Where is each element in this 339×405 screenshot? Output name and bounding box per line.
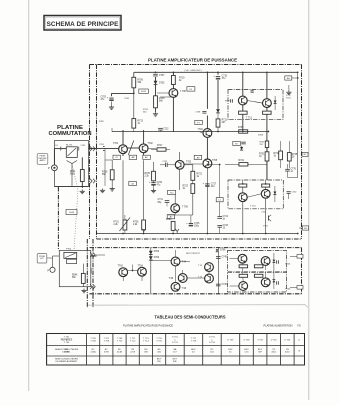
svg-text:R726: R726: [133, 222, 139, 224]
transistor T704: [198, 129, 212, 138]
wire N1 lead: [299, 227, 303, 229]
wire R731 top lead: [266, 140, 268, 152]
wire D706 bottom: [274, 195, 276, 203]
wire C741 right lead: [167, 164, 175, 166]
capacitor C710: [213, 75, 227, 80]
power amp board inner left border: [96, 65, 98, 240]
svg-text:D 706: D 706: [244, 339, 251, 341]
capacitor C718: [217, 225, 228, 230]
node junction: [297, 71, 299, 73]
wire diode rail: [150, 248, 152, 294]
wire T694 out: [180, 261, 190, 263]
emitter resistor R737: [239, 111, 248, 114]
test point F2 box: [233, 141, 241, 145]
node junction: [143, 233, 145, 235]
node junction: [122, 233, 124, 235]
transistor T716 bare: [268, 215, 271, 221]
test point F1 box: [187, 87, 195, 91]
capacitor C747: [277, 260, 279, 263]
board ref 2548 box: [66, 210, 77, 215]
ground R709: [153, 112, 158, 116]
svg-text:2219: 2219: [130, 352, 136, 354]
wire R724 down: [172, 230, 174, 233]
diode D709: [273, 260, 276, 263]
capacitor C717: [251, 91, 254, 92]
table subhead alimentation: [264, 324, 293, 327]
resistor R746: [72, 273, 85, 283]
wire top supply bus: [134, 71, 298, 73]
svg-text:C713: C713: [223, 216, 229, 218]
svg-text:T 712: T 712: [130, 341, 136, 343]
svg-text:81F: 81F: [258, 352, 262, 354]
node junction: [242, 131, 244, 133]
svg-text:R717: R717: [157, 145, 163, 147]
svg-text:C746: C746: [222, 284, 228, 286]
resistor R725: [145, 171, 156, 181]
capacitor C741: [165, 163, 167, 167]
table row header remplacement: [55, 358, 79, 363]
transistor T702: [139, 143, 153, 153]
wire R732 top lead: [280, 141, 282, 151]
transistor T703: [175, 160, 192, 169]
test point A9 box: [194, 155, 202, 159]
node junction: [268, 131, 270, 133]
label C708: [196, 112, 202, 114]
wire D709 D710 link: [273, 263, 275, 280]
resistor R732: [274, 151, 283, 160]
base resistor R739: [239, 184, 247, 187]
wire T702 emitter: [143, 153, 145, 156]
node junction: [173, 71, 175, 73]
wire R732 down: [280, 160, 282, 168]
driver pair box T714 T715: [228, 180, 283, 209]
svg-text:T 716: T 716: [156, 341, 162, 343]
wire C709 down: [153, 185, 155, 188]
label T706 strip: [285, 289, 291, 291]
relay pin tick left: [60, 147, 62, 151]
wire A3 lead: [292, 77, 298, 79]
ground top right: [286, 90, 291, 94]
transistor T707b: [239, 282, 248, 291]
svg-text:2548: 2548: [69, 212, 75, 214]
wire to right tab 2: [290, 286, 297, 288]
svg-text:100u: 100u: [194, 226, 200, 228]
strip left tab 1: [90, 253, 95, 258]
wire R719 to C709: [153, 181, 155, 183]
svg-text:H.P.: H.P.: [40, 258, 44, 260]
junction mark bus mid: [176, 229, 179, 234]
resistor R741: [70, 170, 84, 182]
wire D705 top lead: [274, 96, 276, 101]
capacitor C720: [287, 192, 291, 194]
table row header origine: [55, 349, 79, 354]
svg-text:R716: R716: [102, 172, 108, 174]
wire cap rail: [217, 248, 219, 294]
wire C710 top lead: [217, 72, 219, 75]
resistor R734: [239, 160, 248, 166]
table row header service: [61, 339, 73, 342]
wire T705b to R747: [242, 263, 244, 265]
wire C714 top: [190, 215, 192, 223]
ground commutation: [100, 189, 105, 193]
wire T694 to T696: [175, 266, 177, 282]
emitter resistor R738: [263, 111, 272, 114]
strip right tab 2: [297, 286, 303, 290]
svg-text:4001: 4001: [285, 352, 291, 354]
svg-text:T 708: T 708: [180, 91, 186, 93]
wire to T708b: [265, 272, 267, 278]
transistor T696: [171, 282, 187, 291]
capacitor C716: [231, 99, 233, 102]
wire T708 base: [157, 92, 169, 94]
driver pair box T711 T712: [228, 90, 283, 120]
transistor T706b: [261, 257, 270, 266]
label R730: [260, 142, 266, 146]
svg-text:T704: T704: [198, 129, 204, 131]
label 3-5: [55, 145, 58, 147]
power amp board right border: [301, 65, 303, 240]
diode D706: [216, 249, 226, 252]
resistor R710: [172, 76, 186, 85]
wire into driver box: [225, 100, 230, 102]
label P701: [48, 167, 50, 170]
wire T704b emitter: [141, 276, 143, 281]
test point C8 box: [129, 181, 137, 185]
wire T703 collector: [179, 152, 181, 160]
wire R746 to bottom: [82, 283, 84, 286]
svg-text:C718: C718: [223, 225, 229, 227]
wire relay arm down: [71, 163, 73, 187]
wire T711 to R737: [242, 105, 244, 111]
wire emitter row: [168, 214, 193, 216]
title box SCHEMA DE PRINCIPE: [44, 16, 121, 31]
wire R717 right lead: [166, 149, 170, 151]
capacitor C745: [216, 257, 228, 259]
svg-text:T 710: T 710: [250, 206, 256, 208]
wire R713 bottom lead: [133, 128, 135, 132]
wire R709 bottom: [155, 108, 157, 112]
wire C776 down: [287, 171, 289, 177]
wire C707 to D702: [155, 77, 157, 81]
svg-text:R732: R732: [274, 153, 280, 155]
connector B2 tab: [302, 152, 308, 156]
wire D703a to R711: [217, 113, 219, 119]
wire C703 top: [111, 93, 113, 96]
wire row stub: [111, 128, 113, 132]
diode D704: [149, 256, 160, 260]
label T716: [263, 226, 269, 228]
test point 07 box: [113, 155, 121, 159]
label C741 mid: [163, 161, 169, 163]
relay RL702: [64, 252, 77, 258]
svg-text:SCHEMA DE PRINCIPE: SCHEMA DE PRINCIPE: [47, 21, 120, 28]
transistor T708: [169, 89, 186, 98]
svg-text:C703: C703: [101, 97, 107, 99]
svg-text:2769: 2769: [104, 352, 110, 354]
capacitor C709: [149, 181, 163, 187]
svg-text:T703: T703: [118, 266, 124, 268]
transistor T709: [171, 204, 189, 213]
svg-text:C721: C721: [262, 212, 268, 214]
wire T702 branch down: [143, 160, 145, 219]
transistor T694: [171, 257, 187, 266]
base resistor R740: [262, 184, 270, 187]
svg-text:REPERES: REPERES: [61, 339, 73, 342]
wire T694 up: [175, 250, 177, 257]
wire T703 emitter down: [179, 169, 181, 190]
wire R735 down: [288, 161, 290, 168]
wire R740 to T715: [265, 187, 267, 189]
wire right vertical rail: [297, 72, 299, 177]
wire D702 to R709: [155, 85, 157, 96]
wire T704 base stub: [199, 132, 203, 133]
resistor R730b: [265, 141, 268, 148]
wire T712 to R738: [266, 108, 268, 111]
wire D710 bottom: [273, 283, 275, 290]
prise entree ampli label box: [37, 154, 48, 165]
resistor R749: [239, 274, 248, 277]
node junction: [266, 71, 268, 73]
label C721: [262, 212, 268, 214]
wire box left to T705b: [230, 258, 239, 260]
wire T697 T698 link: [208, 272, 210, 274]
relay contact arm: [67, 161, 78, 164]
wire T714 T715 link: [247, 194, 261, 197]
svg-text:R722: R722: [197, 174, 203, 176]
relay box K1 outline: [55, 141, 89, 187]
wire T695 to T698: [187, 277, 204, 279]
svg-text:R709: R709: [159, 98, 165, 100]
node junction: [133, 93, 135, 95]
svg-text:R711: R711: [222, 120, 228, 122]
wire center column upper: [206, 72, 208, 109]
power amp board bottom border: [97, 238, 302, 240]
wire C776 top: [287, 164, 289, 169]
transistor T695: [169, 274, 188, 283]
wire C705 branch down: [104, 149, 106, 160]
wire T705 emitter rail: [206, 168, 208, 234]
wire P701 down: [124, 230, 126, 234]
diode D706: [273, 192, 276, 195]
wire R731 down: [266, 161, 268, 180]
wire T703b emitter: [122, 277, 124, 281]
wire C707 top lead: [155, 71, 157, 74]
relay RL701: [66, 145, 77, 158]
svg-text:C741: C741: [81, 145, 86, 147]
wire R719 top lead: [153, 162, 155, 171]
wire R706 to R713: [133, 93, 135, 118]
table subhead fo: [298, 325, 301, 327]
wire C713 rail: [219, 165, 221, 217]
label P704: [66, 248, 72, 250]
wire R734 right lead: [248, 163, 267, 165]
wire C776 to rail: [288, 177, 298, 179]
transistor T705: [203, 159, 218, 168]
wire bus left corner down: [133, 72, 135, 77]
svg-text:R735: R735: [292, 154, 298, 156]
wire R710 to T708: [172, 85, 174, 89]
svg-text:C745: C745: [222, 257, 228, 259]
svg-text:PLATINE AMPLIFICATEUR DE PUISS: PLATINE AMPLIFICATEUR DE PUISSANCE: [123, 324, 173, 327]
svg-text:T705: T705: [212, 160, 218, 162]
wire coil to R746: [82, 264, 84, 274]
test point AC box: [143, 155, 151, 159]
node base link: [132, 270, 134, 272]
ground R716: [110, 187, 115, 191]
wire box top to R739: [242, 180, 244, 184]
wire rail to T694: [151, 260, 172, 262]
power transistor T715: [261, 189, 270, 198]
svg-text:C707: C707: [159, 75, 165, 77]
svg-text:T701: T701: [113, 143, 119, 145]
commutation enclosure left border: [57, 187, 59, 250]
wire to R716: [105, 159, 112, 161]
wire R706 bottom lead: [133, 88, 135, 94]
svg-text:T 704: T 704: [64, 342, 70, 344]
capacitor C703: [101, 96, 114, 101]
svg-text:R725: R725: [145, 173, 151, 175]
wire T703 to R722: [184, 164, 193, 166]
semiconductor table outer frame: [47, 334, 305, 366]
node junction: [265, 183, 267, 185]
node junction: [297, 233, 299, 235]
semiconductor table grid: [47, 334, 305, 366]
svg-text:TABLEAU DES SEMI-CONDUCTEURS: TABLEAU DES SEMI-CONDUCTEURS: [155, 314, 226, 319]
wire T708 base: [160, 96, 173, 98]
wire R722 to R723: [192, 180, 194, 183]
diode D710: [273, 280, 276, 283]
transistor T697: [205, 263, 214, 272]
svg-text:D 754: D 754: [209, 342, 216, 344]
label R714: [143, 109, 149, 113]
resistor R716: [102, 170, 114, 180]
svg-text:D 712: D 712: [172, 342, 179, 344]
wire C712 lead: [160, 130, 162, 132]
svg-text:R734: R734: [239, 160, 245, 162]
wire C718 down lead: [219, 227, 221, 233]
svg-text:81F: 81F: [157, 361, 161, 363]
wire to T704 collector: [206, 116, 208, 129]
svg-text:T703: T703: [186, 162, 192, 164]
wire K2 to strip: [91, 255, 97, 257]
resistor R706: [132, 77, 144, 88]
page right edge: [308, 0, 310, 400]
svg-text:P704: P704: [66, 248, 72, 250]
svg-text:[ SEL GRAVURE ]: [ SEL GRAVURE ]: [184, 69, 202, 72]
svg-text:T 96: T 96: [182, 288, 187, 290]
svg-text:C712: C712: [163, 129, 169, 131]
wire D706 top: [274, 186, 276, 192]
wire P702 to relay box: [53, 255, 60, 257]
wire C703 bottom: [111, 102, 113, 106]
diode D703: [149, 251, 160, 255]
wire T701 branch down: [122, 160, 124, 219]
resistor R733: [238, 127, 248, 133]
capacitor C776: [285, 169, 296, 174]
svg-text:84F: 84F: [173, 361, 177, 363]
svg-text:PLATINE AMPLIFICATEUR DE PU: PLATINE AMPLIFICATEUR DE PUISSANCE: [148, 58, 237, 63]
svg-text:414A: 414A: [91, 351, 97, 354]
wire T712 emitter down rail: [266, 114, 268, 180]
node junction: [242, 71, 244, 73]
resistor R735: [287, 153, 298, 161]
ground C709: [151, 189, 156, 193]
wire down to ground row: [104, 160, 106, 186]
page left edge: [28, 0, 30, 391]
wire R739 to T714: [242, 187, 244, 192]
node junction: [217, 71, 219, 73]
wire T702 collector up: [143, 130, 145, 144]
svg-text:T716: T716: [263, 226, 269, 228]
wire T695 up: [182, 270, 184, 273]
svg-text:T712: T712: [286, 98, 292, 100]
lower left border outer: [86, 239, 88, 308]
wire R737 down: [242, 114, 244, 131]
capacitor C715: [186, 222, 200, 228]
svg-text:C710: C710: [222, 76, 228, 78]
wire T703b T704b link: [128, 270, 138, 272]
ground C703: [109, 105, 114, 109]
ground R741: [80, 190, 85, 194]
trimmer P701 resistor: [114, 220, 127, 230]
wire T712 collector rail: [266, 72, 268, 98]
resistor R711: [216, 119, 227, 127]
svg-text:T702: T702: [148, 143, 154, 145]
svg-text:RL701: RL701: [66, 145, 73, 147]
capacitor C715: [241, 142, 246, 144]
svg-text:T 719: T 719: [257, 339, 263, 341]
capacitor C711: [158, 199, 170, 204]
svg-text:D706: D706: [220, 250, 226, 252]
connector A3 box: [285, 76, 292, 80]
diode D705: [274, 101, 277, 104]
svg-text:AMPLI: AMPLI: [40, 159, 46, 162]
wire C720 stub: [288, 194, 290, 200]
capacitor C712: [158, 128, 169, 130]
label T705 strip: [285, 264, 291, 266]
resistor R750: [254, 274, 263, 277]
resistor R722: [191, 171, 203, 180]
svg-text:D 756: D 756: [284, 339, 291, 341]
svg-text:D 705: D 705: [227, 339, 234, 341]
label T710: [250, 206, 256, 208]
label P702: [48, 269, 50, 272]
svg-text:AC: AC: [145, 156, 148, 159]
diode D703a: [216, 109, 220, 113]
label T93: [198, 265, 203, 267]
resistor R713: [132, 119, 144, 129]
wire R710 top lead: [172, 72, 174, 75]
wire input to relay: [54, 148, 66, 150]
wire prise to P702: [47, 257, 53, 259]
wire T704 emitter to T705: [206, 138, 208, 159]
wire base link stub: [132, 265, 134, 271]
wire D705 bottom lead: [274, 104, 276, 111]
transistor T701: [113, 143, 127, 154]
capacitor C713: [217, 216, 228, 221]
wire T701 collector up: [122, 130, 124, 145]
power transistor T711: [238, 96, 247, 105]
label PLATINE COMMUTATION: [49, 125, 92, 137]
svg-text:C715: C715: [194, 223, 200, 225]
wire R716 top lead: [111, 160, 113, 170]
wire C741 left lead: [160, 164, 165, 166]
wire C711 down lead: [166, 203, 168, 207]
svg-text:FO: FO: [298, 325, 301, 327]
capacitor C746: [216, 284, 228, 286]
page fold line: [88, 305, 308, 308]
wire T703 T705 link: [184, 163, 202, 165]
